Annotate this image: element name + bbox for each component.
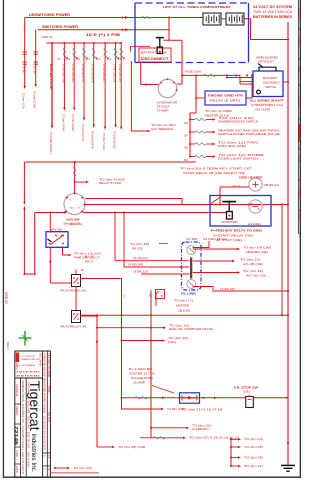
arrow row y447	[112, 446, 115, 449]
starter solenoid contact	[228, 215, 230, 217]
battery compartment box corner	[135, 62, 165, 64]
wire bracket row 3	[231, 457, 238, 459]
circuit breaker CB3 squiggle	[73, 48, 75, 58]
svg-text:RELAY (E-DRD): RELAY (E-DRD)	[210, 99, 240, 103]
svg-text:START RELAY 2B (OE) SAFETY SW: START RELAY 2B (OE) SAFETY SW	[183, 171, 246, 175]
wire breaker column 1	[51, 43, 53, 126]
wire breaker column 7	[115, 43, 117, 125]
revision strip inner line	[297, 0, 299, 234]
inline fuse holder box	[180, 393, 200, 403]
svg-text:14 RD 2A5 ACC: 14 RD 2A5 ACC	[102, 64, 106, 83]
svg-text:OPTION KIT: OPTION KIT	[258, 60, 274, 64]
svg-text:724 HARV: 724 HARV	[298, 95, 302, 107]
junction alternator up	[181, 74, 183, 76]
svg-text:TO (itm 26): TO (itm 26)	[244, 455, 263, 459]
wire breaker row 1 out	[206, 119, 213, 121]
junction dot breaker column 8	[120, 42, 122, 44]
arrow at breaker CB6	[107, 57, 109, 60]
svg-text:TO (itm 18): TO (itm 18)	[130, 242, 149, 246]
junction alternator link	[145, 83, 147, 85]
inline fuse element	[188, 396, 191, 399]
circuit breaker ignition	[73, 167, 75, 177]
junction row y398 right	[285, 397, 287, 399]
svg-text:BRANTFORD ONT: BRANTFORD ONT	[22, 358, 42, 361]
svg-text:ELEC: ELEC	[298, 66, 302, 73]
junction bracket row 1	[230, 438, 232, 440]
title block left column dividers	[15, 404, 21, 464]
connector C2 screw top	[187, 246, 196, 255]
wire grid heater top	[220, 186, 249, 188]
svg-text:DISCONNECT: DISCONNECT	[141, 57, 170, 61]
relay K1 actuator	[51, 236, 63, 245]
arrow connector pair upper	[23, 202, 25, 205]
arrow breaker row 1	[213, 118, 216, 121]
svg-text:SCHEM: SCHEM	[298, 8, 302, 17]
svg-text:DOME LIGHT SWITCH: DOME LIGHT SWITCH	[218, 157, 258, 161]
arrow end breaker column 4	[83, 118, 86, 121]
alternator G1 circle	[158, 79, 176, 97]
wire D1 stub	[155, 292, 157, 306]
relay K1 contacts	[49, 243, 51, 245]
wire alternator link	[141, 84, 159, 86]
sheet left border	[2, 0, 4, 478]
fuse panel bus wire	[47, 42, 122, 44]
wire breaker column 6	[104, 43, 106, 127]
PB120 dash	[159, 243, 168, 245]
wire row y438	[140, 437, 183, 439]
starter solenoid bar	[222, 201, 236, 203]
junction breaker row 4	[189, 155, 191, 157]
wire ignition drop	[74, 162, 76, 194]
junction bracket row 2	[230, 446, 232, 448]
battery B1	[203, 13, 221, 25]
wire right side drop x282	[281, 205, 283, 316]
connector C2 box	[182, 242, 202, 290]
wire ignition feed long	[25, 161, 196, 163]
junction row y468	[54, 467, 56, 469]
junctions row y340	[120, 339, 122, 341]
svg-text:72146: 72146	[14, 426, 19, 446]
wire ignition ACC left	[35, 212, 66, 214]
svg-text:DISCONNECT: DISCONNECT	[263, 81, 280, 85]
junction dot breaker column 1	[51, 42, 53, 44]
revision strip dividers	[298, 29, 300, 234]
title block vertical line C	[20, 378, 22, 477]
svg-text:14 RD 2A5: 14 RD 2A5	[128, 264, 144, 267]
fuse squiggle row y438	[153, 437, 166, 439]
wire breaker row 3 out	[206, 143, 213, 145]
wire breaker column 2	[63, 43, 65, 108]
title block right column dividers	[43, 453, 51, 466]
svg-text:TO (itm 15): TO (itm 15)	[240, 257, 260, 261]
arrow connector pair lower	[23, 207, 25, 210]
svg-text:14 RD (OE): 14 RD (OE)	[167, 408, 185, 411]
fuse squiggle row y398	[135, 397, 148, 399]
disconnect switch Q1 stem	[159, 38, 161, 47]
svg-text:FAN 30A (OE): FAN 30A (OE)	[218, 144, 246, 148]
svg-text:TEL 519 753 2000: TEL 519 753 2000	[47, 353, 50, 378]
fuse annotation leader	[152, 386, 174, 394]
wire C2 out top	[193, 241, 209, 248]
junction disconnect at bus	[287, 81, 289, 83]
svg-text:ENG OIL SAMPLER VALVE: ENG OIL SAMPLER VALVE	[169, 327, 213, 331]
svg-text:x xx x xx xx xx x: x xx x xx xx xx x	[17, 371, 41, 374]
wire relay K1 down	[49, 247, 51, 283]
svg-text:ALARM RLY: ALARM RLY	[192, 427, 209, 431]
arrow end breaker column 7	[114, 125, 117, 128]
wire run relay RR2 out	[81, 315, 98, 317]
circuit breaker row 4	[195, 156, 206, 158]
junction breaker row 3	[189, 143, 191, 145]
svg-text:C: C	[124, 296, 126, 299]
svg-text:HEATER: HEATER	[176, 304, 189, 308]
arrow breaker row 4	[213, 155, 216, 158]
svg-text:BATTERY(+) SW: BATTERY(+) SW	[141, 52, 168, 55]
title block vertical line D	[25, 378, 27, 477]
svg-text:S=START RELAY (OE): S=START RELAY (OE)	[213, 234, 253, 238]
wire ignition I out main	[85, 204, 289, 206]
wire alternator drop	[140, 63, 142, 85]
fuse squiggle charge bus	[204, 74, 216, 76]
wire ground bracket	[230, 438, 232, 466]
svg-text:TO (itm 19): TO (itm 19)	[169, 323, 189, 327]
svg-text:TO (itm 8) AUX: TO (itm 8) AUX	[113, 131, 117, 149]
junction right bus y443	[287, 442, 289, 444]
battery compartment box left	[134, 3, 136, 63]
svg-text:14 RD 2A7 OPT: 14 RD 2A7 OPT	[118, 64, 122, 83]
arrow row y438	[183, 437, 186, 440]
svg-text:TO (itm 30) S TERM KEY START C: TO (itm 30) S TERM KEY START CKT	[180, 167, 253, 171]
circuit breaker row 3	[195, 143, 206, 145]
svg-text:RELAY 87 2A6: RELAY 87 2A6	[99, 181, 122, 185]
arrow C2 out 4	[237, 271, 240, 274]
wire bus x151	[150, 290, 152, 438]
wire run relay feed	[50, 282, 71, 284]
svg-text:30A: 30A	[184, 147, 189, 150]
wire C2 feed 2	[124, 266, 190, 268]
wire C2 feed 1	[115, 260, 190, 262]
svg-text:24 VOLT (OE): 24 VOLT (OE)	[216, 238, 242, 242]
title block vertical line B	[46, 351, 48, 477]
svg-text:ELECTRICAL SYS: ELECTRICAL SYS	[21, 404, 25, 423]
arrow C2 out 3	[232, 260, 235, 263]
run relay RR1 box	[72, 275, 81, 287]
circuit breaker row 1	[195, 119, 206, 121]
svg-text:ACC: ACC	[70, 207, 75, 210]
connector arrow on switched bus	[121, 29, 123, 31]
svg-text:TO (itm 6) HTR: TO (itm 6) HTR	[91, 131, 95, 149]
svg-text:TO (itm 2) KEY: TO (itm 2) KEY	[151, 123, 176, 127]
wire row y447	[97, 446, 112, 448]
svg-text:TWO 12 VOLT 925 CCA: TWO 12 VOLT 925 CCA	[253, 10, 293, 14]
wire breaker row 1	[190, 119, 195, 121]
disconnect switch handle	[259, 67, 276, 71]
starter motor circle lower	[249, 200, 262, 213]
wire connector pair lower	[23, 207, 25, 275]
disconnect switch Q1 body	[157, 47, 162, 54]
junction ignition main at bus	[287, 203, 289, 205]
title block vertical line A	[42, 351, 44, 477]
svg-text:REG TM 450: REG TM 450	[39, 353, 41, 367]
svg-text:(OE): (OE)	[168, 340, 176, 344]
svg-text:HYD 24V: HYD 24V	[298, 36, 302, 47]
arrow bracket row 3	[238, 456, 241, 459]
svg-text:P.O. BOX 637: P.O. BOX 637	[22, 356, 36, 358]
wire bus x121 down	[121, 279, 123, 410]
svg-text:GRID HEATER: GRID HEATER	[239, 176, 262, 180]
wire breaker column 8	[120, 43, 122, 127]
svg-text:10 RD: 10 RD	[22, 66, 26, 73]
svg-text:#(itm 6): #(itm 6)	[69, 222, 82, 226]
wire row y409	[122, 398, 162, 409]
arrow bracket row 2	[238, 446, 241, 449]
svg-text:PB 120: PB 120	[132, 246, 144, 250]
sheet right outer border	[299, 0, 301, 478]
fuse F2 ticks	[34, 51, 39, 53]
svg-text:11/03/2016: 11/03/2016	[15, 384, 18, 397]
junction dot breaker column 3	[73, 42, 75, 44]
wire breaker bank bracket	[189, 113, 191, 157]
svg-text:HARNESS: HARNESS	[298, 186, 302, 199]
svg-text:FUSE 150A: FUSE 150A	[185, 70, 201, 74]
wire alternator up	[181, 40, 183, 84]
wire breaker column 4	[83, 43, 85, 118]
wire disconnect to bus	[283, 81, 288, 83]
run relay RR1 marks	[73, 277, 75, 279]
arrow breaker row 3	[213, 143, 216, 146]
svg-text:B+ 17: B+ 17	[85, 256, 95, 259]
wire alternator output	[177, 83, 182, 85]
svg-text:H250B: H250B	[47, 385, 50, 393]
svg-text:54 MORTON AVE EAST BRANTFORD O: 54 MORTON AVE EAST BRANTFORD ONTARIO CAN…	[43, 353, 46, 413]
svg-text:12 RD 2A1 CAB: 12 RD 2A1 CAB	[61, 64, 65, 83]
arrow relay K1 out	[69, 254, 72, 257]
grid heater relay box U3	[205, 91, 246, 105]
svg-text:A/C (itm 20): A/C (itm 20)	[246, 273, 266, 277]
wire bracket row 2	[231, 446, 238, 448]
svg-text:15 AMP: 15 AMP	[133, 380, 145, 384]
svg-text:724E HARV: 724E HARV	[26, 382, 30, 395]
ground symbol	[281, 464, 295, 466]
svg-text:TO (itm 28) CAB: TO (itm 28) CAB	[118, 445, 145, 449]
wire breaker row 4 out	[206, 156, 213, 158]
wire C2 out bottom	[193, 287, 288, 292]
junction relay K1 down	[49, 261, 51, 263]
wire ACC down	[34, 213, 36, 275]
arrow end feeder column 1	[23, 86, 26, 89]
wire row y468	[55, 467, 67, 469]
svg-text:TO (itm 9) GRID: TO (itm 9) GRID	[205, 109, 232, 113]
wire row y340	[122, 340, 163, 342]
svg-text:TO (itm 12) DOME: TO (itm 12) DOME	[218, 153, 264, 157]
disconnect switch Q1 contact	[159, 51, 161, 53]
svg-text:STARTER: STARTER	[222, 220, 238, 224]
run relay RR1 pin up	[75, 270, 77, 275]
junction bracket row 3	[230, 456, 232, 458]
arrow end breaker column 5	[92, 125, 95, 128]
circuit breaker CB4 squiggle	[83, 48, 85, 58]
svg-text:SWITCH: SWITCH	[265, 85, 276, 89]
junctions long row y315	[96, 314, 98, 316]
svg-text:IGNITER 12 VDC: IGNITER 12 VDC	[129, 371, 155, 375]
wire breaker bank feed	[190, 108, 196, 113]
svg-text:TO (itm 2) 2A8: TO (itm 2) 2A8	[33, 91, 37, 109]
svg-text:IN-LINE FUSE: IN-LINE FUSE	[131, 376, 153, 380]
svg-text:(OE): (OE)	[243, 389, 250, 393]
junctions row y327	[96, 327, 98, 329]
pushbutton stop component	[246, 397, 254, 408]
svg-text:APPD: APPD	[15, 466, 18, 473]
wire C2 out 2	[193, 248, 237, 250]
svg-text:TO (itm 3) FAN: TO (itm 3) FAN	[61, 114, 65, 132]
wire right bus	[287, 22, 289, 465]
wire relay feed	[49, 213, 51, 232]
svg-text:TO (itm 20): TO (itm 20)	[168, 336, 188, 340]
battery disconnect label box	[139, 48, 171, 62]
wire row y473	[50, 472, 99, 474]
wire switched power bus	[38, 29, 170, 31]
junction starter feed	[219, 203, 221, 205]
svg-text:TO (itm 22): TO (itm 22)	[192, 423, 211, 427]
arrow end breaker column 2	[63, 108, 66, 111]
svg-text:SWITCHED POWER: SWITCHED POWER	[42, 25, 79, 29]
svg-text:30A: 30A	[184, 135, 189, 138]
arrow at breaker CB4	[86, 57, 88, 60]
revision strip bold mark	[299, 124, 301, 142]
wire bus x97	[96, 315, 98, 447]
svg-text:SCALE NTS: SCALE NTS	[26, 416, 30, 429]
svg-text:H250B 3/4 TRACK: H250B 3/4 TRACK	[21, 380, 25, 402]
green check mark	[24, 331, 26, 346]
wire connector pair upper	[23, 162, 25, 202]
wire feeder column 1	[24, 18, 26, 87]
wire feeder column 2	[35, 30, 37, 84]
wire grid relay left	[196, 97, 205, 99]
arrow row y398 a	[162, 397, 165, 400]
svg-text:UNSWITCHED POWER: UNSWITCHED POWER	[29, 13, 71, 17]
svg-text:DRAWN: DRAWN	[15, 406, 18, 416]
svg-text:TO (itm 16): TO (itm 16)	[243, 269, 263, 273]
starter motor circle upper	[249, 178, 262, 191]
wire row y327	[97, 327, 163, 329]
wire row y428	[151, 427, 186, 429]
svg-text:ACC TERMINAL: ACC TERMINAL	[151, 127, 175, 131]
wire charge bus	[182, 74, 240, 76]
wire breaker row 2	[190, 131, 195, 133]
svg-text:TO (itm 29): TO (itm 29)	[73, 466, 92, 470]
svg-text:TO (itm 10): TO (itm 10)	[218, 116, 254, 120]
connector C2 body bar	[190, 258, 192, 279]
svg-text:BATTERY: BATTERY	[263, 76, 278, 80]
svg-text:CHKD: CHKD	[15, 450, 18, 457]
green check tick	[23, 335, 28, 341]
svg-text:ENGINE GRID HTR: ENGINE GRID HTR	[208, 94, 243, 98]
battery disconnect box U2	[253, 71, 283, 97]
svg-text:C2 30P: C2 30P	[186, 237, 198, 241]
wire main vertical feed	[195, 75, 197, 108]
wire battery link	[221, 18, 226, 20]
wire ignition branch	[75, 181, 86, 183]
title block logo cell divider	[15, 377, 43, 379]
svg-text:70 AMP: 70 AMP	[157, 109, 169, 113]
battery compartment box top dashed	[135, 2, 249, 4]
junction bus x97	[96, 315, 98, 317]
junction row y428	[150, 427, 152, 429]
junction dot breaker column 7	[115, 42, 117, 44]
svg-text:TO (itm 24): TO (itm 24)	[244, 437, 263, 441]
svg-text:MAIN FEED 8 GA RD: MAIN FEED 8 GA RD	[49, 64, 53, 90]
circuit breaker row 2	[195, 131, 206, 133]
svg-text:TO (itm 27): TO (itm 27)	[244, 464, 263, 468]
svg-text:2B (OE): 2B (OE)	[178, 309, 190, 313]
svg-text:TO (itm 11) FAN: TO (itm 11) FAN	[218, 140, 258, 144]
wire ACC bottom link	[24, 273, 34, 275]
svg-text:24 VOLT DC SYSTEM: 24 VOLT DC SYSTEM	[253, 5, 292, 9]
junction right drop	[281, 203, 283, 205]
arrow row y428	[186, 427, 189, 430]
wire run relay RR1 out	[81, 278, 122, 280]
arrow bracket row 1	[238, 438, 241, 441]
wire elbow left of disconnect	[131, 45, 151, 47]
revision strip labels	[298, 8, 302, 222]
arrow D1 stub	[155, 291, 157, 294]
svg-text:D1 LINK: D1 LINK	[181, 292, 196, 296]
arrow row y468	[67, 467, 70, 470]
svg-text:TO (itm 21) 6,16,17,18: TO (itm 21) 6,16,17,18	[182, 408, 223, 412]
svg-text:REV A: REV A	[298, 214, 302, 222]
disconnect switch lever	[258, 64, 263, 68]
wire disconnect link	[164, 39, 183, 41]
arrow bracket row 4	[238, 465, 241, 468]
wire ignition B out	[85, 199, 182, 205]
svg-text:B 10/11 DWN: B 10/11 DWN	[26, 398, 30, 413]
svg-text:TO (itm 14) CAB: TO (itm 14) CAB	[243, 245, 271, 249]
svg-text:24 (OE): 24 (OE)	[248, 222, 261, 226]
fuse F0 squiggle on unswitched bus	[142, 17, 151, 19]
wire grid heater drop	[219, 187, 221, 205]
junction charge bus	[195, 74, 197, 76]
wire breaker column 3	[73, 43, 75, 108]
logo cell stamp	[16, 353, 20, 363]
junction ignition branch	[74, 181, 76, 183]
svg-text:16 OR: 16 OR	[33, 66, 37, 74]
svg-text:P=PREHEAT RELAY TO GRID: P=PREHEAT RELAY TO GRID	[211, 229, 262, 233]
arrow at breaker CB5	[95, 57, 97, 60]
circuit breaker CB2 squiggle	[63, 48, 65, 58]
arrow C2 out 2	[237, 248, 240, 251]
svg-text:WIRE: WIRE	[298, 155, 302, 162]
svg-text:16 BK 220: 16 BK 220	[220, 288, 236, 291]
svg-text:519-753-2000 FAX 519-753-8272: 519-753-2000 FAX 519-753-8272	[43, 416, 46, 451]
run relay RR2 marks	[73, 313, 75, 315]
svg-text:HEATER A/C FAN 30A SW PANEL: HEATER A/C FAN 30A SW PANEL	[218, 128, 281, 132]
wire ignition ST out	[83, 212, 227, 214]
svg-text:TO (itm 25): TO (itm 25)	[244, 445, 263, 449]
connector C2 screw bottom	[187, 280, 196, 289]
svg-text:SWITCH PANEL FWD+REAR 30A OE: SWITCH PANEL FWD+REAR 30A OE	[218, 132, 280, 136]
svg-text:IGN SW: IGN SW	[67, 218, 80, 222]
svg-text:N3T 5P9 CANADA: N3T 5P9 CANADA	[17, 364, 36, 367]
junction C2 bottom at bus	[287, 290, 289, 292]
arrow row y340	[162, 339, 165, 342]
wire breaker row 4	[190, 156, 195, 158]
junction grid relay	[195, 97, 197, 99]
starter box diagonal	[211, 197, 221, 204]
arrow breaker row 2	[213, 131, 216, 134]
wire elbow tick	[130, 46, 132, 51]
disconnect box terminal	[257, 90, 261, 94]
wire C2 out 4	[193, 272, 237, 274]
